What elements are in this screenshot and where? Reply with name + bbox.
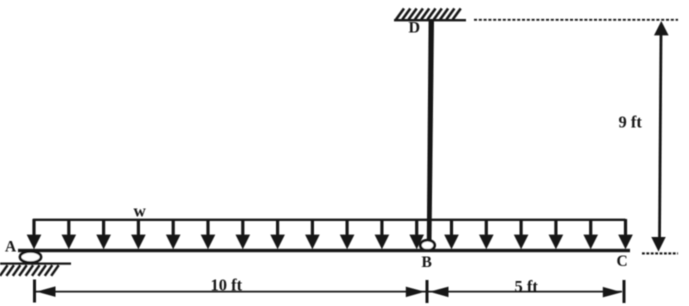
svg-text:9 ft: 9 ft xyxy=(619,112,643,131)
svg-text:w: w xyxy=(134,202,147,221)
svg-text:D: D xyxy=(409,19,421,36)
svg-text:A: A xyxy=(5,238,17,255)
svg-text:B: B xyxy=(422,254,432,271)
svg-text:10 ft: 10 ft xyxy=(211,276,243,295)
svg-text:C: C xyxy=(617,253,628,270)
svg-text:5 ft: 5 ft xyxy=(515,277,539,296)
